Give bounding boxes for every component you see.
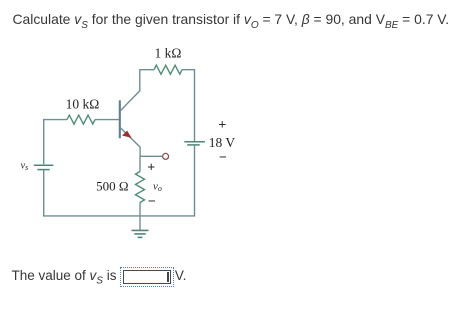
ground bar 1 [132,229,149,231]
transistor Q1 base bar [119,100,121,138]
wire battery bottom to bottom rail [44,145,195,216]
transistor Q1 emitter arrow [122,131,132,138]
wire resistor R3 to bottom rail [139,203,141,216]
svg-text:+: + [147,161,155,176]
ground bar 3 [138,236,143,238]
wire base [95,119,119,121]
svg-text:−: − [219,151,227,166]
wire junction to resistor R3 [139,156,141,171]
resistor R1 10 kOhm [67,115,95,124]
resistor R2 1 kOhm [154,65,182,74]
wire emitter junction to output terminal [140,155,162,157]
wire resistor R2 to battery top [182,70,195,141]
source vs short plate [37,169,49,171]
svg-text:500 Ω: 500 Ω [96,178,128,193]
ground stem [139,216,141,230]
svg-text:18 V: 18 V [209,135,236,150]
resistor R3 500 Ohm [136,172,145,203]
svg-text:10 kΩ: 10 kΩ [66,97,100,112]
transistor Q1 collector lead [120,70,154,111]
node vo open terminal [163,153,169,159]
svg-text:+: + [218,118,226,133]
transistor Q1 emitter lead [120,128,140,157]
svg-text:−: − [148,195,156,210]
source vs long plate [34,164,54,166]
ground bar 2 [134,233,145,235]
battery V1 18 V long plate [184,141,205,143]
battery V1 18 V short plate [187,144,200,146]
wire left vertical top (vs to base node) [44,120,67,165]
svg-text:vo: vo [153,181,162,194]
svg-text:1 kΩ: 1 kΩ [155,45,182,60]
svg-text:vs: vs [21,160,29,172]
